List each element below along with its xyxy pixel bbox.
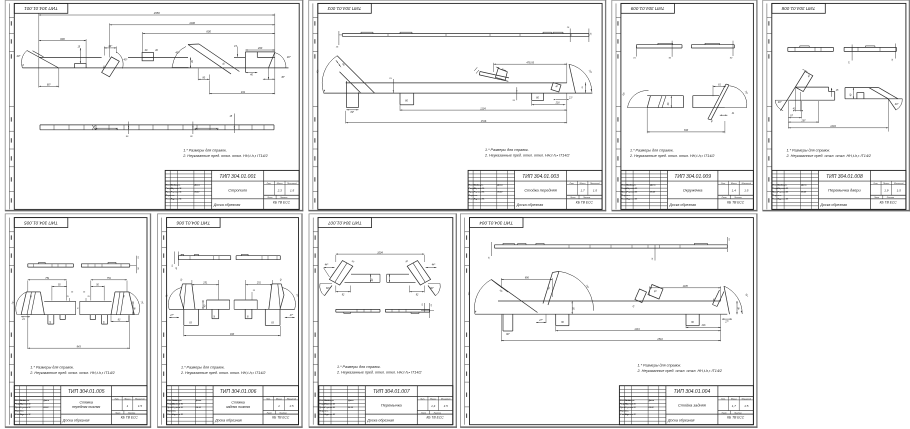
svg-text:Масштаб: Масштаб [742,183,752,185]
svg-text:Реутов М.: Реутов М. [474,192,485,194]
svg-text:2. Неуказанные пред. откл. отк: 2. Неуказанные пред. откл. откл. HH,t-h,… [182,154,267,158]
svg-text:2. Неуказанные пред. откл. отк: 2. Неуказанные пред. откл. откл. HH,t-h,… [629,154,714,158]
svg-text:1.* Размеры для справок.: 1.* Размеры для справок. [181,365,225,369]
svg-text:1,4: 1,4 [732,189,737,193]
svg-text:Масштаб: Масштаб [742,398,752,400]
svg-text:Масштаб: Масштаб [135,398,145,400]
svg-text:44°: 44° [432,264,436,267]
svg-text:Лист: Лист [721,197,727,199]
svg-text:60°: 60° [326,287,330,290]
svg-text:Перемычка двери: Перемычка двери [828,187,861,192]
svg-text:Реутов М.: Реутов М. [171,188,182,190]
svg-text:КБ ТВ ЕСС: КБ ТВ ЕСС [727,416,745,420]
svg-text:21°: 21° [568,97,573,100]
svg-text:27°: 27° [538,320,543,322]
svg-text:Реутов М.: Реутов М. [625,414,636,416]
svg-text:943: 943 [77,345,82,348]
svg-text:1:5: 1:5 [593,189,598,193]
svg-text:ТИП 304.01.007: ТИП 304.01.007 [328,220,362,225]
svg-text:251: 251 [256,281,262,284]
svg-text:КБ ТВ ЕСС: КБ ТВ ЕСС [880,200,898,204]
svg-text:ТИП 304.01.003: ТИП 304.01.003 [327,6,361,11]
svg-text:431: 431 [241,90,246,94]
svg-text:№ докум.: № докум. [778,184,788,187]
svg-text:№ докум.: № докум. [172,399,182,402]
svg-text:ТИП 304.01.004: ТИП 304.01.004 [479,220,513,225]
svg-text:2. Неуказанные пред. откл. отк: 2. Неуказанные пред. откл. откл. HH,t-h,… [336,371,421,375]
svg-text:44°: 44° [325,264,329,267]
svg-text:передняя нижняя: передняя нижняя [72,405,100,409]
svg-text:Стропило: Стропило [228,187,248,192]
svg-text:1,7: 1,7 [732,404,737,408]
svg-text:1:5: 1:5 [744,189,749,193]
svg-text:216: 216 [555,102,561,105]
svg-text:Доска обрезная: Доска обрезная [667,418,695,422]
svg-text:Лит.: Лит. [113,398,119,400]
svg-text:Дата: Дата [347,400,354,402]
svg-text:896: 896 [525,277,530,280]
svg-text:Реутов М.: Реутов М. [625,407,636,409]
svg-text:1516: 1516 [657,338,663,341]
svg-text:Дата: Дата [649,185,656,187]
svg-text:№ докум.: № докум. [627,184,637,187]
svg-text:№ докум.: № докум. [324,399,334,402]
svg-text:1.* Размеры для справок.: 1.* Размеры для справок. [337,365,381,369]
svg-text:2. Неуказанные пред. откл. отк: 2. Неуказанные пред. откл. откл. HH,t-h,… [29,371,114,375]
svg-text:Перенес.: Перенес. [166,195,176,197]
svg-text:Окружечка: Окружечка [683,187,703,192]
svg-text:1.* Размеры для справок.: 1.* Размеры для справок. [30,365,74,369]
svg-text:27°: 27° [724,322,729,324]
svg-text:Масштаб: Масштаб [894,183,904,185]
svg-text:Перенес.: Перенес. [620,410,630,412]
svg-text:1294: 1294 [830,125,836,128]
svg-text:ТИП 304.01.006: ТИП 304.01.006 [220,389,257,395]
svg-text:2950: 2950 [153,11,160,15]
svg-text:Дата: Дата [193,185,200,187]
svg-text:600: 600 [206,30,211,34]
svg-text:Дата: Дата [800,185,807,187]
svg-text:60°: 60° [47,83,51,87]
svg-text:Дата: Дата [43,400,50,402]
svg-text:Доска обрезная: Доска обрезная [668,203,696,207]
svg-text:Реутов М.: Реутов М. [20,414,31,416]
svg-text:1100: 1100 [189,21,195,25]
svg-text:200: 200 [257,46,263,50]
svg-text:Перемычка: Перемычка [381,403,403,408]
svg-text:06.10: 06.10 [801,192,807,194]
svg-text:Реутов М.: Реутов М. [324,403,335,405]
svg-text:06.10: 06.10 [650,192,656,194]
svg-text:Лист: Лист [114,412,120,414]
svg-text:Реутов М.: Реутов М. [627,192,638,194]
svg-text:Листов: Листов [886,197,894,199]
svg-text:1134: 1134 [634,328,640,331]
svg-text:Лист: Лист [266,197,272,199]
svg-text:№ докум.: № докум. [625,399,635,402]
svg-text:1.* Размеры для справок.: 1.* Размеры для справок. [183,148,227,152]
svg-text:Перенес.: Перенес. [167,410,177,412]
svg-text:ТИП 304.01.007: ТИП 304.01.007 [373,389,410,395]
svg-text:Лит.: Лит. [569,183,575,185]
svg-text:КБ ТВ ЕСС: КБ ТВ ЕСС [727,200,745,204]
svg-text:1195: 1195 [683,285,689,288]
svg-text:476,93: 476,93 [526,61,534,64]
svg-text:Доска обрезная: Доска обрезная [62,418,90,422]
svg-text:2,3: 2,3 [277,189,283,193]
svg-text:Лист: Лист [266,412,272,414]
svg-text:Реутов М.: Реутов М. [171,199,182,201]
svg-text:Масса: Масса [580,183,587,185]
svg-text:КБ ТВ ЕСС: КБ ТВ ЕСС [272,416,290,420]
svg-text:Реутов М.: Реутов М. [627,199,638,201]
svg-text:Реутов М.: Реутов М. [625,403,636,405]
svg-text:Лит.: Лит. [720,398,726,400]
svg-text:Стойка передняя: Стойка передняя [524,187,556,192]
svg-text:Масса: Масса [277,183,284,185]
svg-text:Доска обрезная: Доска обрезная [213,203,241,207]
svg-text:1,7: 1,7 [580,189,585,193]
svg-text:ТИП 304.01.003: ТИП 304.01.003 [522,174,559,180]
svg-text:Лист: Лист [873,197,879,199]
svg-text:задняя нижняя: задняя нижняя [225,405,250,409]
svg-text:216: 216 [701,325,707,327]
svg-text:Листов: Листов [279,197,287,199]
svg-text:2. Неуказанные пред. откл. отк: 2. Неуказанные пред. откл. откл. HH,t-h,… [180,371,265,375]
svg-text:ТИП 304.01.005: ТИП 304.01.005 [24,220,58,225]
svg-text:Доска обрезная: Доска обрезная [366,418,394,422]
svg-text:60°: 60° [506,333,510,336]
svg-text:КБ ТВ ЕСС: КБ ТВ ЕСС [576,200,594,204]
svg-text:2. Неуказанные пред. откл. отк: 2. Неуказанные пред. откл. откл. HH,t-h,… [484,154,569,158]
svg-text:1.* Размеры для справок.: 1.* Размеры для справок. [638,363,682,367]
svg-text:Реутов М.: Реутов М. [20,407,31,409]
svg-text:Масштаб: Масштаб [287,398,297,400]
svg-text:1.* Размеры для справок.: 1.* Размеры для справок. [630,148,674,152]
svg-text:Реутов М.: Реутов М. [172,414,183,416]
svg-text:Реутов М.: Реутов М. [20,403,31,405]
svg-text:ТИП 304.01.001: ТИП 304.01.001 [219,174,256,180]
svg-text:40°: 40° [17,54,21,58]
svg-text:ТИП 304.01.009: ТИП 304.01.009 [674,174,711,180]
svg-text:1516: 1516 [481,120,487,123]
svg-text:2. Неуказанные пред. откл. отк: 2. Неуказанные пред. откл. откл. HH,t-h,… [786,154,871,158]
svg-text:297: 297 [801,119,807,122]
svg-text:27°: 27° [289,315,294,317]
svg-text:Масса: Масса [731,398,738,400]
svg-text:40°: 40° [778,101,782,104]
svg-text:Стойка задняя: Стойка задняя [678,403,706,408]
svg-text:1:5: 1:5 [744,404,749,408]
svg-text:1.* Размеры для справок.: 1.* Размеры для справок. [485,148,529,152]
svg-text:Лист: Лист [569,197,575,199]
svg-text:Реутов М.: Реутов М. [778,199,789,201]
svg-text:Масса: Масса [883,183,890,185]
svg-text:Перенес.: Перенес. [15,410,25,412]
svg-text:Листов: Листов [278,412,286,414]
svg-text:60°: 60° [430,287,434,290]
svg-text:Дата: Дата [496,185,503,187]
svg-text:Лит.: Лит. [266,183,272,185]
svg-text:06.10: 06.10 [649,407,655,409]
svg-text:2. Неуказанные пред. откл. отк: 2. Неуказанные пред. откл. откл. HH,t-h,… [637,369,722,373]
svg-text:Реутов М.: Реутов М. [778,192,789,194]
svg-text:КБ ТВ ЕСС: КБ ТВ ЕСС [121,416,139,420]
svg-text:600: 600 [60,37,65,41]
svg-text:Лит.: Лит. [872,183,878,185]
svg-text:Перенес.: Перенес. [772,195,782,197]
svg-text:Стяжка: Стяжка [231,400,244,404]
svg-text:Масштаб: Масштаб [441,398,451,400]
svg-text:Лит.: Лит. [419,398,425,400]
svg-text:№ докум.: № докум. [20,399,30,402]
svg-text:1,4: 1,4 [431,404,436,408]
svg-text:1:5: 1:5 [897,189,902,193]
svg-text:Масштаб: Масштаб [590,183,600,185]
svg-text:Листов: Листов [582,197,590,199]
svg-text:Лист: Лист [721,412,727,414]
svg-text:КБ ТВ ЕСС: КБ ТВ ЕСС [426,416,444,420]
svg-text:Листов: Листов [733,412,741,414]
svg-text:Реутов М.: Реутов М. [172,407,183,409]
svg-text:943: 943 [230,333,235,336]
svg-text:Реутов М.: Реутов М. [171,192,182,194]
svg-text:1.* Размеры для справок.: 1.* Размеры для справок. [787,148,831,152]
svg-text:Реутов М.: Реутов М. [627,188,638,190]
svg-text:ТИП 304.01.008: ТИП 304.01.008 [826,174,863,180]
svg-text:Перенес.: Перенес. [621,195,631,197]
svg-text:44°: 44° [108,44,112,48]
svg-text:Масса: Масса [430,398,437,400]
svg-text:1:5: 1:5 [289,404,294,408]
svg-text:843: 843 [684,129,689,132]
svg-text:Масштаб: Масштаб [287,183,297,185]
svg-text:27°: 27° [169,315,174,317]
svg-text:Реутов М.: Реутов М. [778,188,789,190]
svg-text:Перенес.: Перенес. [469,195,479,197]
svg-text:ТИП 304.01.005: ТИП 304.01.005 [68,389,105,395]
svg-text:1:5: 1:5 [290,189,295,193]
svg-text:КБ ТВ ЕСС: КБ ТВ ЕСС [273,200,291,204]
svg-text:251: 251 [202,281,208,284]
svg-text:80°: 80° [350,111,354,114]
svg-text:Реутов М.: Реутов М. [474,199,485,201]
svg-text:45°: 45° [281,76,285,79]
svg-text:ТИП 304.01.006: ТИП 304.01.006 [176,220,210,225]
svg-text:№ докум.: № докум. [171,184,181,187]
svg-text:ТИП 304.01.009: ТИП 304.01.009 [630,6,664,11]
svg-text:Лит.: Лит. [265,398,271,400]
svg-text:06.10: 06.10 [497,192,503,194]
svg-text:Реутов М.: Реутов М. [324,414,335,416]
svg-text:1,9: 1,9 [884,189,889,193]
svg-text:Стяжка: Стяжка [80,400,93,404]
svg-text:Реутов М.: Реутов М. [474,188,485,190]
svg-text:Реутов М.: Реутов М. [172,403,183,405]
svg-text:06.10: 06.10 [196,407,202,409]
svg-text:Реутов М.: Реутов М. [324,407,335,409]
svg-text:Дата: Дата [195,400,202,402]
svg-text:Листов: Листов [433,412,441,414]
svg-text:Доска обрезная: Доска обрезная [819,203,847,207]
svg-text:751: 751 [45,277,50,280]
svg-text:ТИП 304.01.008: ТИП 304.01.008 [781,6,815,11]
svg-text:1004: 1004 [377,251,383,254]
svg-text:Лит.: Лит. [720,183,726,185]
svg-text:Масса: Масса [276,398,283,400]
svg-text:ТИП 304.01.001: ТИП 304.01.001 [24,6,58,11]
svg-text:ТИП 304.01.004: ТИП 304.01.004 [674,389,711,395]
svg-text:Листов: Листов [127,412,135,414]
svg-text:Дата: Дата [648,400,655,402]
svg-text:06.10: 06.10 [44,407,50,409]
svg-text:1:5: 1:5 [138,404,143,408]
svg-text:1:5: 1:5 [444,404,449,408]
svg-text:Лист: Лист [420,412,426,414]
svg-text:751: 751 [107,277,112,280]
svg-text:Доска обрезная: Доска обрезная [516,203,544,207]
svg-text:40°: 40° [287,55,291,59]
svg-text:№ докум.: № докум. [474,184,484,187]
svg-text:Масса: Масса [124,398,131,400]
svg-text:40°: 40° [895,103,899,106]
svg-text:Перенес.: Перенес. [319,410,329,412]
svg-text:45°: 45° [124,58,128,62]
svg-text:06.10: 06.10 [348,407,354,409]
svg-text:Масса: Масса [731,183,738,185]
svg-text:Листов: Листов [733,197,741,199]
svg-text:06.10: 06.10 [194,192,200,194]
svg-text:Доска обрезная: Доска обрезная [214,418,242,422]
svg-text:1134: 1134 [480,107,486,110]
